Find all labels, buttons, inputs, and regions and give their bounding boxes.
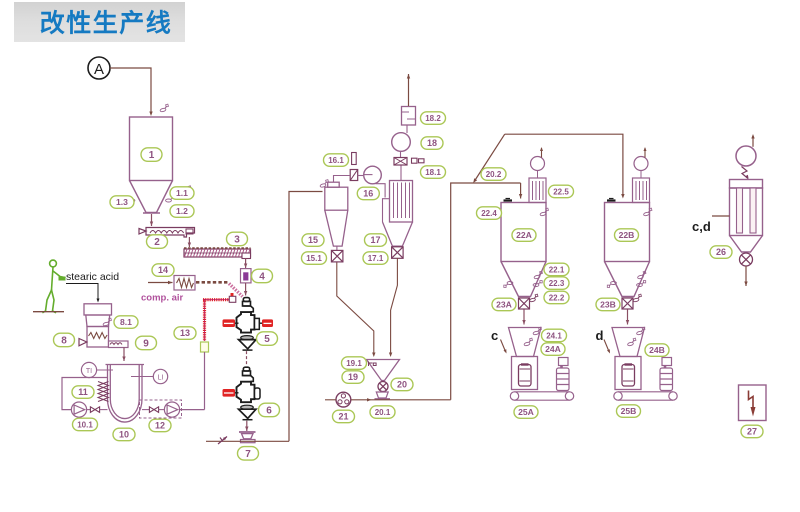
label 22.3 [544,277,569,290]
valve at pump 12 [149,407,158,413]
silencer 18.2 [402,107,416,126]
silo 1 level sensor [182,186,193,195]
svg-text:19: 19 [348,372,358,382]
svg-text:18.2: 18.2 [425,114,441,123]
label 23A [492,298,516,311]
hatched hot-air pipe [196,282,243,296]
wire valve to pump 12 [159,409,165,411]
sensor 19.1 glyph [369,362,377,367]
wire conveyor 3 to rotary feeder 4 [244,259,247,269]
belt conveyor 25A [510,392,573,400]
pump 10.1 [71,402,86,417]
svg-text:22.4: 22.4 [481,209,497,218]
svg-text:22.5: 22.5 [553,187,569,196]
fan 18 [392,133,411,152]
label 13 [174,327,196,340]
hopper 24B sensor upper [636,327,646,335]
exhaust stack arrow [407,74,410,106]
svg-text:11: 11 [78,387,88,397]
mill 5 discharge cone [239,336,257,351]
label 20.2 [481,168,506,181]
silo 22A vibrator left [504,282,513,288]
rotary valve 23A [519,298,530,309]
cyclone 15 inlet fitting [319,180,329,188]
svg-text:5: 5 [264,334,270,345]
worker figure [43,260,66,312]
svg-text:17: 17 [370,235,380,245]
label 10.1 [73,418,98,431]
label 24.1 [542,329,567,342]
label 22B [615,229,639,242]
svg-text:8.1: 8.1 [120,317,132,327]
svg-text:15: 15 [308,235,318,245]
svg-text:8: 8 [61,336,67,347]
silo 22B side sensor [643,208,653,216]
svg-text:24.1: 24.1 [546,331,562,340]
wire baghouse 17 to separator 19 [389,258,398,357]
label 22A [512,229,536,242]
label 8.1 [114,316,138,329]
svg-text:22.1: 22.1 [549,265,565,274]
svg-text:d: d [596,328,604,343]
wire valve 16.1 to fan 16 [358,175,363,177]
silo 22A top fitting [504,199,513,201]
flex joint symbol at feeder 7 [218,437,227,445]
label 4 [252,269,273,283]
svg-text:20.1: 20.1 [375,408,391,417]
silo 1 body [130,117,173,213]
silo 1 vibrator right [166,196,175,202]
silo 1 top nozzle [159,104,169,112]
silo 22B vibrator left [607,282,616,288]
wire mill 6 to feeder 7 [245,421,248,431]
svg-text:20: 20 [397,380,407,390]
svg-text:c,d: c,d [692,219,711,234]
wire pipe 13 down to pump 12 [204,352,206,410]
silo 22A side sensor [539,208,549,216]
packing hopper 24A [509,328,542,357]
baghouse filter 17 [383,181,413,247]
valve 23A fitting [529,294,539,302]
wire tank left loop [62,378,108,410]
label 16 [357,187,379,200]
wire feeder 4 to mill 5 [244,283,247,296]
mill 6 right port [255,388,261,399]
heated pipe 13 vertical [203,299,231,341]
label 1 [141,148,162,162]
svg-text:4: 4 [259,272,265,283]
svg-text:23A: 23A [496,300,512,310]
svg-text:19.1: 19.1 [346,359,362,368]
svg-text:7: 7 [245,449,251,460]
fan 16 [364,166,382,184]
wire stearic acid to hopper 8.1 [66,284,100,303]
label 26 [710,246,732,258]
valve at pump 10.1 [90,407,99,413]
silo 22B vibrator right [637,281,646,287]
wire branch to silo 22B [473,134,624,198]
pipe 13 lower valve box [201,342,209,352]
svg-text:3: 3 [234,235,240,246]
label 18.1 [421,166,446,179]
label 22.4 [477,207,502,220]
fan at baghouse 26 [736,134,756,166]
silo 22B cone sensor upper [637,271,647,279]
svg-text:9: 9 [143,339,149,350]
wire tank to valve 12 [142,409,149,411]
svg-text:1: 1 [149,150,155,161]
mill 6 body [237,382,255,403]
svg-text:27: 27 [747,427,757,437]
wire feeder 2 to conveyor 3 [188,237,191,247]
vessel 8 inlet nozzle [79,339,87,346]
filter fan 22.5A [531,147,545,178]
filter 22.5A [529,178,546,203]
wire silo 1 to feeder 2 [150,214,153,226]
instrument TI [81,362,113,377]
packing machine 25B housing [615,357,641,390]
wire valve 18.1 to fan 18 [400,151,402,157]
screw conveyor 3 [184,248,251,259]
label 17.1 [363,252,388,264]
svg-text:16.1: 16.1 [328,156,344,165]
vessel 8 heating coil [89,333,108,339]
svg-text:13: 13 [180,328,190,338]
label 25A [514,406,538,419]
motor 6 left (red) [223,389,239,397]
baghouse 26 bags [737,188,757,233]
packing hopper 24B [612,328,645,357]
mill 6 discharge cone [239,405,257,420]
roots blower 21 [325,392,351,407]
label 21 [333,410,355,423]
svg-text:22A: 22A [516,230,532,240]
wire pump 10.1 to valve [87,409,90,411]
heating coil 11 [98,382,109,402]
screw feeder 9 [109,341,129,348]
svg-text:15.1: 15.1 [306,254,322,263]
svg-text:22B: 22B [619,230,635,240]
label 22.2 [544,291,569,304]
melting vessel 8.1 [84,304,112,347]
label 24B [645,344,669,357]
silo 22A vibrator right [533,281,542,287]
silo 22B body [605,203,650,297]
valve 18.1 [394,158,424,166]
wire comp air to heater 14 [148,281,173,284]
label 20.1 [370,406,395,419]
label 17 [365,234,387,247]
silo 22A body [501,203,546,297]
label 18.2 [421,112,446,125]
static discharge zigzag 26 [742,167,749,180]
silo 22B top fitting [607,199,616,201]
mill 5 body [237,312,255,333]
svg-text:改性生产线: 改性生产线 [40,9,173,38]
vessel 8.1 sensor [102,318,112,326]
svg-text:1.3: 1.3 [116,197,128,207]
svg-text:2: 2 [154,237,160,248]
belt conveyor 25B [614,392,677,400]
svg-text:1.1: 1.1 [176,188,188,198]
filled bag at 25A [557,358,570,391]
label 2 [147,235,168,249]
svg-text:12: 12 [155,421,165,431]
wire blower 21 conveying line to silos [351,183,521,402]
motor 5 left (red) [223,319,239,327]
cyclone 15 [325,182,348,250]
mill 6 neck [243,367,254,381]
label 22.5 [549,185,574,198]
packing machine 25A housing [512,357,538,390]
label 27 [741,425,763,438]
valve 23B fitting [632,294,642,302]
label 1.2 [170,205,194,218]
wire cyclone 15 to separator 19 [337,263,376,358]
svg-text:TI: TI [86,368,92,375]
svg-text:comp. air: comp. air [141,293,184,304]
svg-text:c: c [491,328,498,343]
label 19.1 [342,357,367,370]
wire valve 23A to hopper 24A [522,310,525,325]
pump 12 [164,402,179,417]
label 9 [136,336,157,350]
baghouse 26 [730,180,763,253]
svg-text:20.2: 20.2 [486,170,502,179]
svg-text:26: 26 [716,247,726,257]
wire fan 18 to silencer [406,125,408,133]
filter 22.5B [633,178,650,203]
letter c inlet [491,328,507,354]
wire feeder 7 conveying line [206,440,289,442]
label 24A [541,343,565,356]
pipe 13 fitting box [229,293,236,302]
separator hopper 19 [367,360,400,381]
screw feeder 2 [139,228,195,238]
power supply box 27 [739,385,767,421]
svg-text:22.3: 22.3 [549,279,565,288]
label 14 [152,264,174,277]
label 20 [391,378,413,391]
svg-text:16: 16 [363,189,373,199]
tank 10 (U jacket) [106,365,145,423]
dashed heat-trace box 12 [140,400,182,418]
svg-text:23B: 23B [600,300,616,310]
motor 5 right (red) [259,319,273,327]
wire cyclone top to valve 16.1 [334,176,350,183]
svg-text:18: 18 [427,138,437,148]
svg-text:18.1: 18.1 [425,168,441,177]
svg-text:17.1: 17.1 [368,254,384,263]
silo 22A cone sensor upper [533,271,543,279]
svg-text:1.2: 1.2 [176,206,188,216]
wire mill 5 to mill 6 [246,351,248,366]
label 22.1 [544,263,569,276]
svg-text:14: 14 [158,265,168,275]
hopper 24A sensor upper [532,327,542,335]
hopper 24A sensor lower [523,338,533,346]
svg-text:24A: 24A [545,344,561,354]
wire valve 23B to hopper 24B [626,310,629,325]
label 12 [149,419,171,432]
label 25B [617,405,641,418]
valve 20 [378,382,388,392]
rotary valve 17.1 [392,247,404,258]
mill 5 right port [255,318,260,329]
wire pump 12 discharge [180,409,205,411]
vibrating feeder 7 [239,432,256,443]
label 11 [72,386,94,399]
svg-text:A: A [94,61,104,78]
label 16.1 [324,154,349,167]
rotary valve at 26 [740,253,753,266]
rotary valve 23B [622,298,633,309]
node A [88,57,110,79]
label 23B [596,298,620,311]
valve 16.1 [350,153,358,181]
wire valve to tank [100,409,108,411]
heater 14 [174,276,195,291]
svg-text:6: 6 [266,406,272,417]
wire feeder 9 to tank 10 [122,348,125,362]
filter fan 22.5B [634,147,648,178]
wire feeder 7 to cyclone 15 [289,192,323,442]
header banner [14,2,185,42]
svg-text:stearic acid: stearic acid [66,271,119,283]
discharge hopper 20.1 [375,392,391,399]
ground line [33,311,64,313]
rotary feeder 4 [241,269,252,283]
label 6 [259,403,280,417]
label 19 [342,371,364,384]
wire fan 16 to baghouse 17 [376,184,386,198]
silo 1 vibrator left [126,199,135,205]
wire c,d inlet to baghouse 26 [712,215,730,217]
filled bag at 25B [660,358,673,391]
label 18 [421,137,443,150]
svg-text:LI: LI [158,375,164,382]
svg-text:21: 21 [338,412,348,422]
wire baghouse 17 to valve 18.1 [400,165,402,181]
wire A to silo 1 [110,68,153,116]
label 15.1 [302,252,327,264]
letter d inlet [596,328,611,354]
label 15 [302,234,324,247]
rotary valve 15.1 [331,250,343,262]
svg-text:22.2: 22.2 [549,293,565,302]
label 8 [54,333,75,347]
label 7 [238,447,259,461]
svg-text:25B: 25B [621,406,637,416]
svg-text:25A: 25A [518,407,534,417]
svg-text:10.1: 10.1 [77,420,93,429]
label 3 [227,232,248,246]
wire drop into silo 22A [519,183,522,199]
hopper 24B sensor lower [627,338,637,346]
label 1.3 [110,196,134,209]
label 1.1 [170,187,194,200]
mill 5 neck [243,298,254,312]
label 5 [257,332,278,346]
instrument LI [131,369,168,383]
wire baghouse 26 discharge [744,266,747,286]
label 10 [113,428,135,441]
svg-text:10: 10 [119,430,129,440]
svg-text:24B: 24B [649,345,665,355]
